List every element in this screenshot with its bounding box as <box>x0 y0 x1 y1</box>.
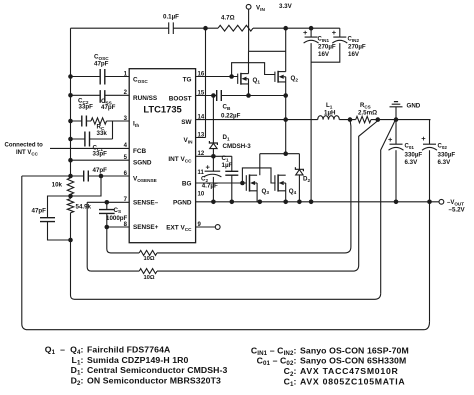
svg-text:RCS: RCS <box>360 103 371 109</box>
wire drain bus lower <box>260 153 300 155</box>
junction BG <box>240 181 245 186</box>
svg-text:CIN2: CIN2 <box>348 37 360 43</box>
inductor L1 1uH <box>286 119 318 121</box>
junction <box>68 119 73 124</box>
svg-text:10: 10 <box>198 192 205 198</box>
diode D2 MBRS320T3 <box>298 154 300 170</box>
junction -VOUT rail <box>283 200 288 205</box>
svg-text:+: + <box>332 28 337 37</box>
junction INTVCC <box>211 154 216 159</box>
wire Q2 drain <box>285 28 287 71</box>
svg-text:33pF: 33pF <box>79 104 94 111</box>
capacitor CSS 47pF <box>71 94 130 96</box>
wire INTVCC <box>196 155 232 157</box>
wire left SGND/-VOUT rail <box>71 28 381 299</box>
wire EXTVCC <box>196 226 216 228</box>
node CIN1 top <box>309 26 314 31</box>
svg-text:INT VCC: INT VCC <box>16 150 39 156</box>
svg-text:3.3V: 3.3V <box>279 3 293 10</box>
wire SENSE+ <box>107 226 129 228</box>
svg-text:270µF: 270µF <box>318 44 336 51</box>
ground GND <box>395 107 397 120</box>
wire BOOST <box>196 95 249 97</box>
svg-text:10Ω: 10Ω <box>143 256 154 262</box>
junction output GND <box>394 117 399 122</box>
wire SW bus <box>249 95 286 97</box>
wire drain bus <box>249 50 286 52</box>
capacitor CC1 33pF <box>71 121 113 139</box>
junction SENSE- <box>105 200 110 205</box>
junction VOSENSE <box>99 174 104 179</box>
node VIN-pin filter <box>203 26 208 31</box>
terminal -VOUT <box>439 199 444 204</box>
svg-text:54.9k: 54.9k <box>76 204 92 211</box>
junction -VOUT rail <box>230 200 235 205</box>
resistor 54.9k <box>67 199 73 213</box>
svg-text:4.7Ω: 4.7Ω <box>221 15 235 22</box>
svg-text:1µH: 1µH <box>324 110 336 117</box>
svg-text:330µF: 330µF <box>405 152 423 159</box>
svg-text:0.1µF: 0.1µF <box>163 14 179 21</box>
svg-text:16V: 16V <box>318 51 330 58</box>
wire gate bus <box>232 63 276 77</box>
junction <box>68 93 73 98</box>
svg-text:SENSE+: SENSE+ <box>133 224 159 231</box>
svg-text:LTC1735: LTC1735 <box>143 103 181 114</box>
junction BOOST <box>211 93 216 98</box>
svg-text:+: + <box>388 135 393 144</box>
capacitor 0.1uF <box>169 22 174 34</box>
node 3.3V rail <box>283 26 288 31</box>
svg-text:33k: 33k <box>97 130 108 137</box>
terminal EXTVCC open <box>215 225 220 230</box>
capacitor COSC 47pF <box>71 76 130 78</box>
svg-text:+: + <box>421 134 426 143</box>
capacitor 47pF feedforward <box>71 175 130 177</box>
junction TG <box>229 74 234 79</box>
terminal VIN <box>246 4 251 9</box>
svg-text:+: + <box>303 28 308 37</box>
svg-text:Central Semiconductor CMDSH-3: Central Semiconductor CMDSH-3 <box>87 365 228 375</box>
svg-text:AVX TACC47SM010R: AVX TACC47SM010R <box>300 366 399 376</box>
svg-text:BOOST: BOOST <box>169 95 192 102</box>
junction RCS right <box>376 117 381 122</box>
resistor 4.7ohm <box>218 25 253 31</box>
svg-text:AVX 0805ZC105MATIA: AVX 0805ZC105MATIA <box>300 377 405 387</box>
svg-text:16V: 16V <box>348 51 360 58</box>
junction -VOUT rail <box>258 200 263 205</box>
wire SENSE- <box>87 202 139 271</box>
svg-text:Sumida CDZP149-H 1R0: Sumida CDZP149-H 1R0 <box>87 355 189 365</box>
capacitor CC2 33pF <box>71 120 92 122</box>
svg-text:+: + <box>206 163 211 172</box>
svg-text:SW: SW <box>181 119 192 126</box>
transistor Q2 <box>274 72 276 82</box>
svg-text:47pF: 47pF <box>32 208 47 215</box>
wire FCB to INT VCC <box>50 147 129 149</box>
svg-text:FCB: FCB <box>133 148 147 155</box>
junction SW <box>283 117 288 122</box>
junction SENSE+ <box>105 225 110 230</box>
svg-text:Sanyo OS-CON 16SP-70M: Sanyo OS-CON 16SP-70M <box>300 346 409 356</box>
wire TG <box>196 76 238 78</box>
wire feedback sense row <box>381 121 395 293</box>
wire Q1 drain <box>248 51 250 73</box>
svg-text:SGND: SGND <box>133 160 152 167</box>
svg-text:Fairchild FDS7764A: Fairchild FDS7764A <box>87 344 171 354</box>
transistor Q1 <box>237 74 239 84</box>
wire SGND <box>71 159 130 161</box>
svg-text:6.3V: 6.3V <box>438 159 452 166</box>
junction Q1 source <box>246 93 251 98</box>
wire gate bus lower <box>242 168 275 183</box>
resistor RCS 2.5mohm <box>356 116 371 122</box>
svg-text:–5.2V: –5.2V <box>449 207 466 214</box>
capacitor CIN2 270uF electrolytic <box>339 28 341 37</box>
junction SW lower <box>283 151 288 156</box>
wire VOSENSE to divider tap <box>71 176 102 196</box>
diode D1 CMDSH-3 <box>212 96 214 144</box>
junction -VOUT rail <box>394 200 399 205</box>
svg-text:47pF: 47pF <box>101 104 116 111</box>
svg-text:RUN/SS: RUN/SS <box>133 95 158 102</box>
svg-text:PGND: PGND <box>173 199 192 206</box>
junction <box>68 74 73 79</box>
resistor RC 33k <box>91 118 107 124</box>
wire <box>253 27 340 29</box>
capacitor C02 330uF electrolytic <box>430 120 431 145</box>
junction <box>68 174 73 179</box>
svg-text:TG: TG <box>183 76 192 83</box>
op-amp U1 LTC1735 controller <box>129 69 195 243</box>
svg-text:1µF: 1µF <box>222 162 233 169</box>
capacitor CB 0.22uF <box>217 90 222 101</box>
svg-text:GND: GND <box>407 103 421 110</box>
wire VIN pin <box>196 28 206 137</box>
svg-text:Connected to: Connected to <box>5 143 44 149</box>
wire PGND/-VOUT rail <box>196 201 439 203</box>
capacitor CS 1000pF <box>107 202 139 253</box>
svg-text:SENSE–: SENSE– <box>133 200 159 207</box>
svg-text:47pF: 47pF <box>94 61 109 68</box>
wire SW vertical <box>285 96 287 154</box>
svg-text:10k: 10k <box>52 182 63 189</box>
svg-text:1000pF: 1000pF <box>106 215 128 222</box>
capacitor CIN1 270uF electrolytic <box>310 28 312 37</box>
svg-text:Sanyo OS-CON 6SH330M: Sanyo OS-CON 6SH330M <box>300 356 406 366</box>
junction -VOUT rail <box>427 200 432 205</box>
junction -VOUT rail <box>297 200 302 205</box>
junction <box>68 194 73 199</box>
svg-text:6.3V: 6.3V <box>405 159 419 166</box>
svg-text:2.5mΩ: 2.5mΩ <box>358 110 377 117</box>
svg-text:330µF: 330µF <box>438 152 456 159</box>
resistor 10k <box>67 178 73 194</box>
wire BG <box>196 182 247 184</box>
junction -VOUT rail <box>309 200 314 205</box>
transistor Q3 <box>245 175 247 191</box>
svg-text:47pF: 47pF <box>93 167 108 174</box>
svg-text:BG: BG <box>182 180 192 187</box>
svg-text:C01: C01 <box>405 144 415 150</box>
svg-text:ON Semiconductor MBRS320T3: ON Semiconductor MBRS320T3 <box>87 375 221 385</box>
junction -VOUT rail <box>211 200 216 205</box>
svg-text:0.22µF: 0.22µF <box>221 113 241 120</box>
junction Q2 source <box>283 93 288 98</box>
junction <box>68 238 73 243</box>
svg-text:10Ω: 10Ω <box>143 275 154 281</box>
wire Q3 drain <box>259 154 261 176</box>
capacitor C01 330uF electrolytic <box>395 120 397 145</box>
junction <box>68 158 73 163</box>
svg-text:270µF: 270µF <box>348 44 366 51</box>
wire <box>248 9 250 51</box>
wire <box>71 27 219 29</box>
transistor Q4 <box>274 175 276 191</box>
resistor 10ohm upper <box>139 250 157 255</box>
svg-text:33pF: 33pF <box>93 151 108 158</box>
capacitor 47pF across 54.9k <box>48 196 71 240</box>
junction RCS left <box>348 117 353 122</box>
wire SW <box>196 119 286 121</box>
svg-text:–VOUT: –VOUT <box>447 200 464 206</box>
junction <box>68 137 73 142</box>
svg-text:CMDSH-3: CMDSH-3 <box>223 143 252 150</box>
resistor 10ohm lower <box>139 269 157 274</box>
svg-text:CIN1: CIN1 <box>318 37 330 43</box>
svg-text:C02: C02 <box>438 144 448 150</box>
wire -VOUT loop <box>22 176 430 330</box>
capacitor C1 1uF <box>231 156 233 202</box>
